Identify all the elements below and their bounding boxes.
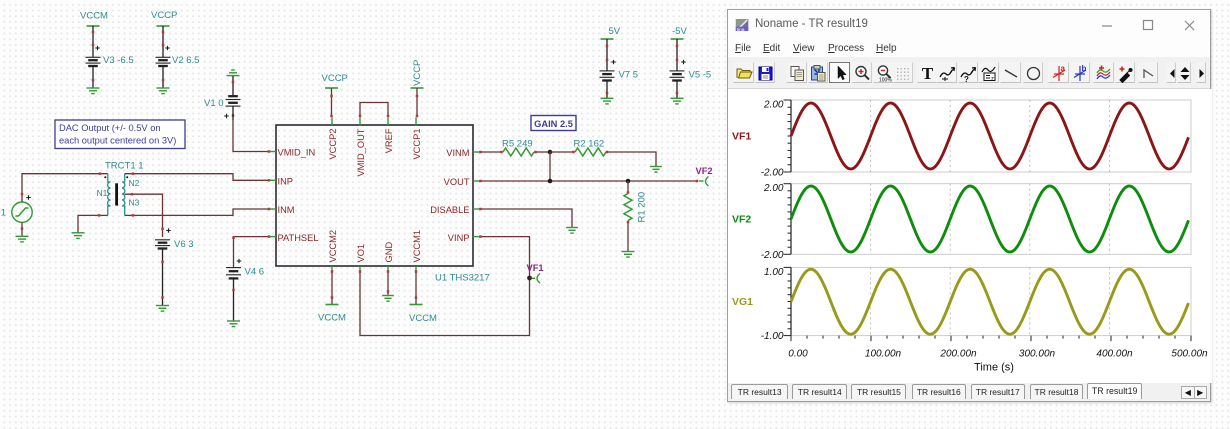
y labels VF2 (761, 183, 784, 261)
voltage source V7 5 (600, 39, 639, 98)
wire N2 to INP (125, 172, 271, 181)
wire VO1 to VF1 (359, 270, 530, 335)
note DAC Output (55, 120, 185, 149)
wire VG1 to transformer (21, 172, 108, 202)
svg-text:VF1: VF1 (732, 131, 751, 143)
svg-text:VMID_OUT: VMID_OUT (356, 128, 366, 176)
net label VCCP right vertical (412, 60, 423, 86)
x axis title (974, 362, 1014, 374)
wire center tap to V6 (125, 193, 164, 237)
wire V1 to VMID_IN (233, 120, 270, 153)
svg-text:tina: tina (737, 27, 745, 31)
svg-text:PATHSEL: PATHSEL (278, 233, 319, 243)
pin DISABLE (430, 205, 479, 215)
svg-text:TRCT1 1: TRCT1 1 (105, 161, 144, 172)
pin VINM (446, 148, 479, 158)
toolbar (728, 57, 1210, 89)
svg-text:VOUT: VOUT (444, 177, 470, 187)
trace label VG1 (732, 296, 753, 308)
wire R5 to node (534, 151, 550, 154)
svg-text:?: ? (964, 75, 969, 83)
ground under VG1 (16, 236, 29, 242)
svg-text:VF2: VF2 (732, 214, 751, 226)
wire GND pin (387, 270, 390, 295)
resistor R5 249 (502, 139, 534, 157)
svg-text:500.00n: 500.00n (1171, 349, 1208, 360)
voltage generator VG1 (0, 195, 32, 222)
node R1 junction (626, 179, 631, 184)
svg-text:V3 -6.5: V3 -6.5 (103, 55, 134, 66)
svg-text:VCCP: VCCP (151, 10, 177, 21)
pin VINP (448, 233, 480, 243)
pin VO1 (356, 244, 366, 271)
svg-text:N2: N2 (129, 178, 140, 188)
net label 5V (609, 26, 621, 37)
net label VCCP (151, 10, 177, 21)
svg-text:100.00n: 100.00n (865, 349, 902, 360)
svg-text:2.00: 2.00 (763, 100, 784, 111)
plot area (728, 89, 1212, 383)
wire VINM lead (479, 151, 503, 154)
wire R1 bottom lead (627, 221, 630, 251)
waveform VF1 (791, 103, 1189, 169)
jack V7 (601, 38, 614, 40)
svg-text:VCCM1: VCCM1 (412, 230, 422, 263)
pin INM (270, 205, 295, 215)
voltage source V5 -5 (670, 39, 712, 98)
jack VCCP1 (411, 87, 424, 89)
wire VCCP1 (416, 88, 419, 117)
pin VCCM1 (412, 230, 422, 271)
svg-text:VCCP: VCCP (412, 60, 423, 86)
pin VREF (384, 118, 394, 154)
tab bar (728, 383, 1210, 400)
jack V5 (671, 38, 684, 40)
svg-text:VCCP2: VCCP2 (328, 129, 338, 160)
svg-text:GAIN 2.5: GAIN 2.5 (534, 119, 573, 129)
ground above V1 (227, 70, 240, 96)
net label VCCM (80, 11, 108, 22)
jack VCCM (87, 25, 100, 27)
svg-text:100%: 100% (879, 77, 892, 83)
svg-text:INM: INM (278, 205, 295, 215)
svg-text:N3: N3 (129, 198, 140, 208)
svg-text:400.00n: 400.00n (1096, 349, 1133, 360)
y labels VF1 (761, 100, 784, 179)
svg-text:V6 3: V6 3 (174, 239, 194, 250)
svg-text:VINM: VINM (446, 148, 469, 158)
pin VCCP2 (328, 118, 338, 160)
wire VCCM1 (415, 270, 418, 304)
ground under V4 (227, 321, 240, 327)
wire N3 to INM (125, 208, 271, 217)
voltage source V3 -6.5 (86, 26, 134, 88)
wire VINP to VF1 (479, 235, 529, 276)
svg-text:z: z (991, 76, 994, 82)
svg-text:300.00n: 300.00n (1019, 349, 1056, 360)
svg-text:each output centered on 3V): each output centered on 3V) (59, 136, 176, 146)
ground DISABLE (566, 228, 578, 234)
svg-text:-1.00: -1.00 (761, 331, 784, 342)
svg-text:VCCM: VCCM (80, 11, 108, 22)
node VF2 (696, 166, 713, 186)
ground under V5 (671, 98, 684, 104)
y labels VG1 (761, 267, 784, 342)
trace label VF1 (732, 131, 751, 143)
wire primary to ground (78, 214, 108, 232)
wire R1 top lead (627, 181, 630, 194)
voltage source V6 3 (155, 228, 194, 305)
jack VCCM1 (410, 304, 423, 306)
svg-text:1.00: 1.00 (764, 267, 784, 278)
wire VOUT (479, 180, 698, 183)
plot panels background (728, 89, 1212, 383)
node VOUT junction (548, 179, 553, 184)
svg-text:V2 6.5: V2 6.5 (172, 55, 199, 66)
x axis ticks (791, 336, 1191, 342)
svg-text:DISABLE: DISABLE (430, 205, 469, 215)
svg-text:INP: INP (278, 177, 294, 187)
svg-text:T: T (922, 64, 934, 83)
svg-text:5V: 5V (609, 26, 621, 37)
svg-text:DAC Output (+/- 0.5V on: DAC Output (+/- 0.5V on (59, 123, 161, 133)
svg-text:V1 0: V1 0 (204, 98, 224, 109)
svg-text:VF1: VF1 (527, 263, 544, 273)
voltage source V1 0 (204, 96, 241, 120)
svg-text:R5 249: R5 249 (502, 139, 533, 150)
pin GND (384, 242, 394, 271)
schematic canvas (0, 0, 730, 429)
plot panel VG1 frame (784, 267, 1192, 335)
svg-text:R1 200: R1 200 (637, 192, 648, 223)
trace label VF2 (732, 214, 751, 226)
analysis window (727, 9, 1211, 402)
svg-text:VO1: VO1 (356, 244, 366, 263)
ground under V2 (157, 88, 170, 94)
x axis labels (788, 349, 1208, 360)
wire VG1 to ground (21, 222, 24, 236)
net label VCCP left (322, 73, 348, 84)
ground after R2 (650, 167, 662, 173)
pin PATHSEL (270, 233, 319, 243)
window title bar (728, 10, 1210, 36)
wire R2 to ground (606, 151, 656, 166)
svg-text:U1 THS3217: U1 THS3217 (435, 273, 490, 284)
wire VCCM2 (331, 270, 334, 304)
wire DISABLE (479, 208, 572, 227)
svg-text:200.00n: 200.00n (939, 349, 977, 360)
svg-text:VMID_IN: VMID_IN (278, 148, 316, 158)
pin VCCM2 (328, 230, 338, 271)
pin VCCP1 (412, 118, 422, 160)
jack VCCM2 (326, 304, 339, 306)
voltage source V4 6 (226, 259, 264, 321)
svg-text:R2 162: R2 162 (574, 139, 605, 150)
svg-text:VREF: VREF (384, 128, 394, 153)
plot panel VF1 frame (784, 100, 1192, 172)
pin INP (270, 177, 294, 187)
svg-text:GND: GND (384, 242, 394, 263)
plot panel VF2 frame (784, 184, 1192, 255)
svg-text:VCCP: VCCP (322, 73, 348, 84)
svg-text:-5V: -5V (672, 26, 687, 37)
voltage source V2 6.5 (156, 26, 200, 88)
svg-text:V4 6: V4 6 (245, 267, 265, 278)
jack VCCP2 (325, 87, 338, 89)
svg-text:b: b (1082, 64, 1087, 73)
transformer TRCT1 1 (97, 161, 144, 216)
svg-text:VG1: VG1 (732, 296, 753, 308)
svg-text:V5 -5: V5 -5 (689, 70, 712, 81)
pin VOUT (444, 177, 480, 187)
resistor R2 162 (574, 139, 607, 157)
wire PATHSEL to V4 (232, 235, 270, 267)
svg-text:2.00: 2.00 (763, 183, 784, 194)
wire VCCP2 (330, 88, 333, 117)
svg-text:N1: N1 (97, 188, 108, 198)
svg-text:VF2: VF2 (696, 166, 713, 176)
waveform VG1 (791, 269, 1189, 334)
svg-text:0.00: 0.00 (788, 349, 808, 360)
ground under V3 (87, 88, 100, 94)
svg-text:VCCM: VCCM (318, 313, 346, 324)
ground under primary (72, 233, 85, 239)
wire VMID_OUT to VREF (359, 103, 390, 118)
gain note box (531, 116, 576, 131)
svg-text:Time (s): Time (s) (974, 362, 1014, 374)
menu bar (728, 36, 1210, 57)
svg-text:V7 5: V7 5 (619, 70, 639, 81)
svg-text:VCCM2: VCCM2 (328, 230, 338, 263)
net label VCCM left (318, 313, 346, 324)
net label -5V (672, 26, 687, 37)
wire node to R2 (550, 151, 575, 154)
jack VCCP (157, 25, 170, 27)
node R5-R2 (548, 150, 553, 181)
svg-text:VG1: VG1 (0, 208, 6, 219)
pin VMID_IN (270, 148, 316, 158)
svg-text:VINP: VINP (448, 233, 470, 243)
pin VMID_OUT (356, 118, 366, 177)
ground under V7 (601, 98, 614, 104)
svg-text:-2.00: -2.00 (761, 168, 784, 179)
svg-text:-2.00: -2.00 (761, 250, 784, 261)
svg-text:VCCP1: VCCP1 (412, 129, 422, 160)
op-amp U1 THS3217 (276, 125, 490, 284)
waveform VF2 (791, 186, 1189, 252)
ground under V6 (156, 306, 169, 312)
net label VCCM right (409, 313, 437, 324)
resistor R1 200 (624, 192, 648, 223)
svg-text:VCCM: VCCM (409, 313, 437, 324)
node VF1 (527, 263, 544, 283)
svg-text:a: a (1060, 64, 1065, 73)
ground under R1 (622, 252, 635, 258)
ground under GND pin (382, 296, 394, 302)
